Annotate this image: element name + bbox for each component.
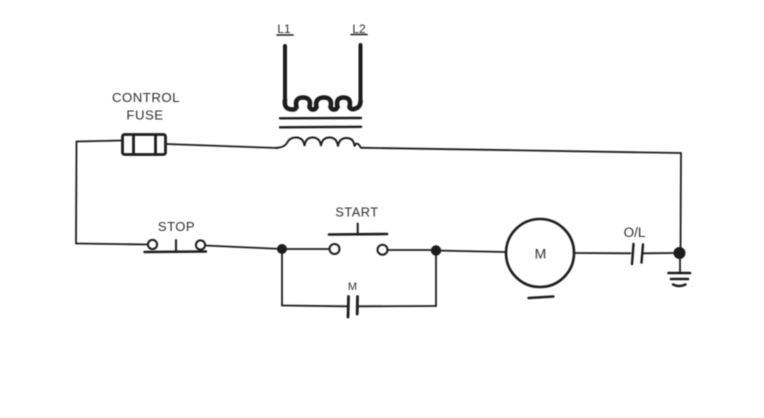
svg-text:O/L: O/L [624,225,646,240]
wire node A to START [282,248,330,250]
wire branch left vertical [281,249,283,306]
svg-text:M: M [535,246,547,262]
wire secondary to top-right corner [363,148,681,153]
svg-text:M: M [348,281,357,293]
pushbutton STOP (NC) [145,240,207,252]
transformer T1 core [280,118,361,127]
wire branch right vertical [435,251,437,307]
wire branch horizontal left [282,305,347,308]
transformer T1 primary winding [285,98,361,110]
transformer T1 secondary winding [276,138,363,148]
label L1 [277,22,293,36]
transformer T1 primary left lead [283,46,287,102]
node B [431,245,441,255]
svg-text:CONTROL: CONTROL [112,90,180,105]
wire branch horizontal right [358,305,436,307]
wire O/L to right junction [644,252,675,254]
wire bottom-left horizontal [76,244,148,245]
svg-text:START: START [335,205,378,220]
svg-text:L1: L1 [277,22,291,36]
contact M (holding contact, NO) [348,297,358,318]
label CONTROL FUSE [112,90,180,123]
node A [277,244,287,254]
fuse F (control fuse) [123,135,166,155]
svg-text:FUSE: FUSE [126,108,163,123]
pushbutton START (NO) [329,224,388,255]
wire STOP to node A [205,246,282,250]
svg-text:STOP: STOP [158,219,195,234]
ground [669,256,691,286]
wire fuse to transformer [166,144,278,148]
label L2 [351,22,367,36]
transformer T1 primary right lead [359,45,363,103]
coil M (motor starter coil) [506,219,574,298]
wire left bus vertical [75,142,78,244]
wire node B to coil M [436,251,506,253]
wire top-left horizontal [77,141,123,142]
wire right bus vertical [680,153,683,252]
wire START to node B [388,249,431,251]
node right bus junction [674,247,686,259]
wire coil M to O/L [574,252,631,254]
overload contact O/L [632,244,643,264]
